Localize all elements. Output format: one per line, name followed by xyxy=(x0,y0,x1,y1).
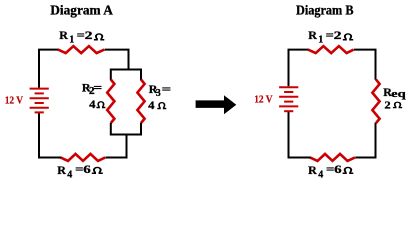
svg-text:=: = xyxy=(162,82,172,96)
svg-text:1: 1 xyxy=(69,35,74,46)
label R1 =2 ohm (A) xyxy=(59,28,104,45)
svg-text:2: 2 xyxy=(334,28,342,42)
label 2 ohm (Req) xyxy=(384,99,402,111)
resistor R1 (A) zigzag xyxy=(58,46,104,53)
svg-text:12 V: 12 V xyxy=(254,93,273,105)
svg-text:4: 4 xyxy=(67,169,72,180)
wire: A left side and top-left corner xyxy=(39,50,59,88)
svg-text:=: = xyxy=(93,80,102,94)
svg-text:eq: eq xyxy=(391,88,406,100)
label 4 ohm (R3) xyxy=(148,98,166,112)
svg-text:2: 2 xyxy=(384,99,391,111)
svg-text:2: 2 xyxy=(85,28,93,42)
label 4 ohm (R2) xyxy=(89,97,105,111)
svg-text:R: R xyxy=(57,163,66,177)
wire: parallel bottom bar (A) xyxy=(111,134,141,136)
wire: right branch bottom stub xyxy=(140,123,142,136)
label R1 =2 ohm (B) xyxy=(308,28,353,45)
svg-text:R: R xyxy=(59,28,68,42)
wire: B bottom-left segment xyxy=(289,111,311,157)
svg-text:6: 6 xyxy=(83,162,91,176)
svg-text:6: 6 xyxy=(334,162,342,176)
resistor R4 (A) zigzag xyxy=(61,154,106,161)
wire: center stub down to bottom wire (A) xyxy=(106,135,127,158)
wire: right branch top stub xyxy=(140,69,142,81)
resistor R2 (A) vertical zigzag xyxy=(107,80,114,124)
svg-text:4: 4 xyxy=(318,169,323,180)
svg-text:4: 4 xyxy=(89,97,95,111)
resistor Req (B) vertical zigzag xyxy=(372,80,379,124)
label R4 =6 ohm (A) xyxy=(57,162,103,180)
svg-text:12 V: 12 V xyxy=(5,95,24,107)
wire: A bottom-left segment xyxy=(39,113,61,158)
battery 12V (A) xyxy=(30,89,49,113)
svg-text:R: R xyxy=(308,28,317,42)
wire: left branch top stub xyxy=(110,69,112,81)
resistor R1 (B) zigzag xyxy=(308,46,354,53)
label R4 =6 ohm (B) xyxy=(308,162,353,180)
wire: left branch bottom stub xyxy=(110,123,112,136)
svg-text:1: 1 xyxy=(318,35,323,46)
wire: parallel top bar (A) xyxy=(111,69,141,71)
resistor R4 (B) zigzag xyxy=(310,154,355,161)
label R2= (A) xyxy=(82,80,103,97)
label Req (B) xyxy=(383,85,406,100)
svg-text:Diagram A: Diagram A xyxy=(50,2,113,17)
svg-text:R: R xyxy=(308,163,317,177)
svg-text:3: 3 xyxy=(156,88,161,99)
svg-text:Diagram B: Diagram B xyxy=(296,2,354,17)
wire: B right-bottom segment xyxy=(355,123,375,158)
label R3= (A) xyxy=(149,82,172,99)
wire: B left side and top-left corner xyxy=(289,50,309,87)
resistor R3 (A) vertical zigzag xyxy=(137,80,144,124)
wire: A top-right corner down to parallel top bar xyxy=(105,50,129,70)
svg-text:4: 4 xyxy=(148,98,154,112)
wire: B top-right corner down to Req xyxy=(354,50,376,80)
battery 12V (B) xyxy=(279,87,298,111)
arrow between diagrams xyxy=(196,95,237,114)
